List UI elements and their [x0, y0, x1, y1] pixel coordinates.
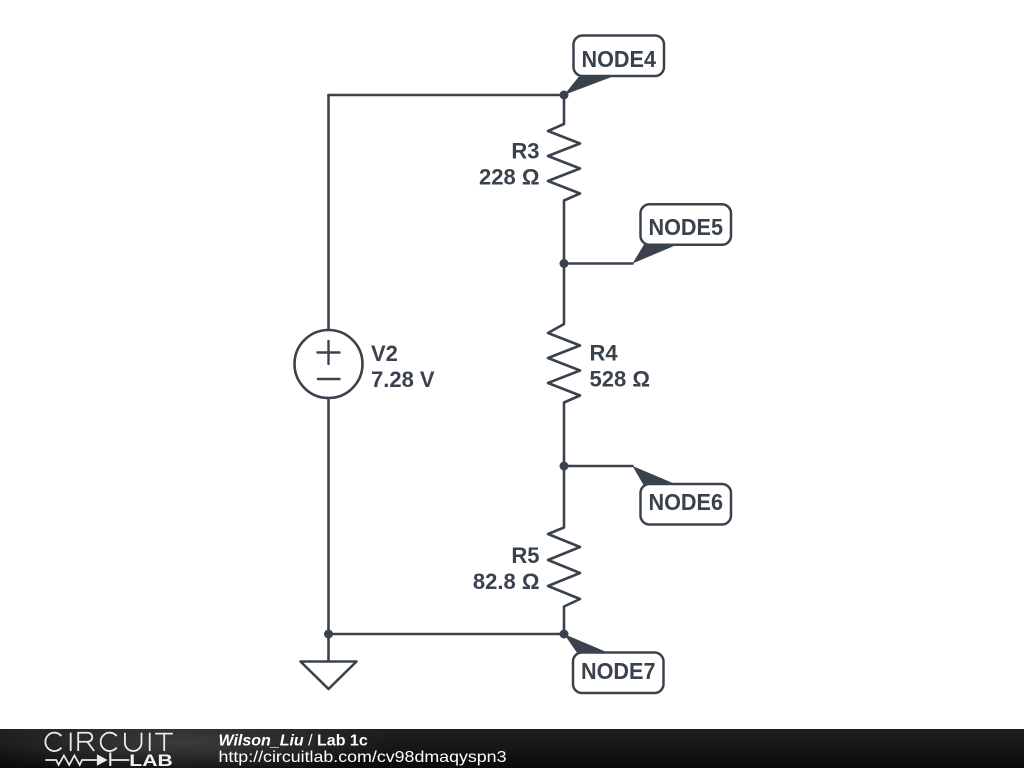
- svg-text:LAB: LAB: [129, 751, 173, 768]
- R4 value label: [590, 341, 650, 392]
- resistor R3: [548, 95, 580, 264]
- CircuitLab logo wordmark CIRCUIT: [45, 733, 172, 751]
- node NODE6 junction dot: [560, 462, 569, 471]
- footer bar: [0, 729, 1024, 768]
- R3 value label: [479, 139, 539, 190]
- node NODE4 callout: [564, 36, 664, 96]
- wire top horizontal: [329, 94, 565, 97]
- CircuitLab logo resistor-diode line: [45, 753, 129, 767]
- voltage source V2: [295, 330, 363, 398]
- node NODE5 callout: [633, 204, 732, 263]
- wire bottom horizontal: [329, 633, 565, 636]
- svg-text:http://circuitlab.com/cv98dmaq: http://circuitlab.com/cv98dmaqyspn3: [219, 749, 507, 766]
- V2 value label: [371, 341, 435, 392]
- node NODE7 callout: [564, 634, 664, 693]
- node NODE6 callout: [633, 466, 732, 525]
- ground junction dot: [324, 630, 333, 639]
- ground: [301, 634, 357, 689]
- resistor R5: [548, 466, 580, 634]
- svg-text:Wilson_Liu / Lab 1c: Wilson_Liu / Lab 1c: [219, 733, 368, 750]
- wire left lower (V2 bottom lead): [327, 398, 330, 634]
- node NODE4 junction dot: [560, 91, 569, 100]
- node NODE7 junction dot: [560, 630, 569, 639]
- wire NODE6 stub: [564, 465, 633, 468]
- node NODE5 junction dot: [560, 259, 569, 268]
- wire NODE5 stub: [564, 262, 633, 265]
- R5 value label: [473, 543, 540, 594]
- wire left upper (V2 top lead): [327, 95, 330, 330]
- resistor R4: [548, 264, 580, 467]
